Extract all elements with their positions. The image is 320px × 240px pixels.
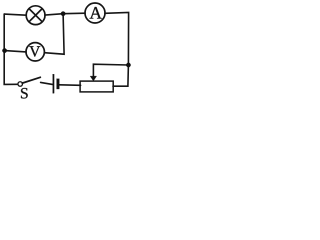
switch S [18, 77, 40, 98]
wire top-left corner to lamp [4, 14, 26, 15]
wire ammeter to top-right corner and down right side [105, 12, 129, 65]
wire voltmeter right to node A [44, 14, 64, 55]
voltmeter V [26, 43, 44, 61]
label A (ammeter designator) [90, 7, 102, 19]
ammeter A [85, 3, 105, 23]
wire switch to bottom-left corner and up left side [4, 14, 18, 84]
node A junction dot (top) [61, 12, 65, 16]
rheostat body [80, 81, 113, 92]
wire node B to voltmeter [5, 51, 27, 52]
node B junction dot (left) [2, 48, 6, 52]
switch blade (open) [22, 77, 40, 83]
label V (voltmeter designator) [29, 46, 40, 56]
battery cell [53, 74, 60, 93]
node C junction dot (right) [126, 63, 130, 67]
battery negative plate (short thick) [57, 79, 60, 89]
switch pivot terminal [18, 82, 23, 87]
wire node A to ammeter [63, 12, 85, 15]
battery positive plate (long) [53, 74, 54, 93]
rheostat R [80, 76, 113, 92]
rheostat slider arrowhead [90, 76, 97, 81]
wire lamp to node A [45, 14, 63, 15]
wire slider branch [93, 64, 128, 76]
wire right side down to rheostat right terminal [113, 65, 128, 86]
wire battery to switch blade [41, 82, 53, 84]
wire rheostat left terminal to battery [59, 84, 80, 87]
lamp L1 [26, 6, 45, 25]
label S (switch designator) [21, 88, 28, 98]
